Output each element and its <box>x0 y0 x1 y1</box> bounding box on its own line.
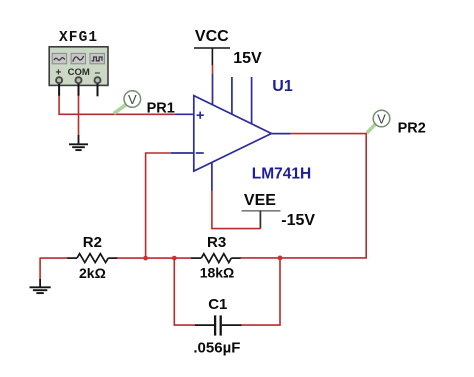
op-amp U1 <box>171 74 291 191</box>
resistor R2 <box>67 254 117 263</box>
svg-text:.056µF: .056µF <box>193 339 240 356</box>
label U1 <box>272 78 293 95</box>
svg-text:C1: C1 <box>208 296 227 313</box>
power VCC <box>194 28 230 65</box>
label R2 <box>83 234 102 251</box>
svg-text:U1: U1 <box>272 78 293 95</box>
label PR2 <box>398 121 426 137</box>
label PR1 <box>147 101 175 117</box>
svg-text:18kΩ: 18kΩ <box>200 264 235 280</box>
wire XFG+ to op-amp input node <box>59 96 175 115</box>
label R3 <box>207 234 226 251</box>
svg-text:VCC: VCC <box>195 28 229 45</box>
svg-text:R2: R2 <box>83 234 102 251</box>
wire main row left segment <box>40 257 67 259</box>
ground left <box>30 279 51 293</box>
probe PR2 <box>367 110 390 133</box>
label LM741H <box>252 165 311 182</box>
svg-text:15V: 15V <box>233 50 262 67</box>
svg-text:PR2: PR2 <box>398 121 426 137</box>
node junction feedback <box>143 256 148 261</box>
svg-text:XFG1: XFG1 <box>59 30 98 46</box>
wire feedback from inverting input <box>146 153 172 258</box>
power VEE <box>242 192 281 228</box>
function generator XFG1 <box>49 47 108 97</box>
capacitor C1 <box>195 315 241 335</box>
resistor R3 <box>191 254 240 263</box>
wire output to PR2 corner and down to row <box>240 134 366 258</box>
probe PR1 <box>114 91 141 114</box>
label 15V <box>233 50 262 67</box>
wire main row middle segment <box>117 257 192 259</box>
wire op-amp VEE pin to VEE symbol <box>212 190 261 228</box>
svg-text:V: V <box>377 112 386 127</box>
wire C1 right branch <box>241 258 280 325</box>
node junction C1 right <box>278 256 283 261</box>
svg-text:VEE: VEE <box>244 192 276 209</box>
wire VCC to op-amp <box>212 65 214 74</box>
label C1 <box>208 296 227 313</box>
svg-text:2kΩ: 2kΩ <box>79 265 106 281</box>
ground under COM <box>69 135 88 150</box>
svg-text:R3: R3 <box>207 234 226 251</box>
svg-text:LM741H: LM741H <box>252 165 311 182</box>
node junction C1 left <box>172 256 177 261</box>
wire C1 left branch <box>174 258 195 325</box>
label .056uF <box>193 339 240 356</box>
label -15V <box>281 212 315 229</box>
wire XFG COM down <box>78 96 80 136</box>
label XFG1 <box>59 30 98 46</box>
svg-text:PR1: PR1 <box>147 101 175 117</box>
svg-text:-15V: -15V <box>281 212 315 229</box>
label 18kOhm <box>200 264 235 280</box>
svg-text:V: V <box>128 92 137 107</box>
label 2kOhm <box>79 265 106 281</box>
wire left ground drop <box>39 258 41 280</box>
